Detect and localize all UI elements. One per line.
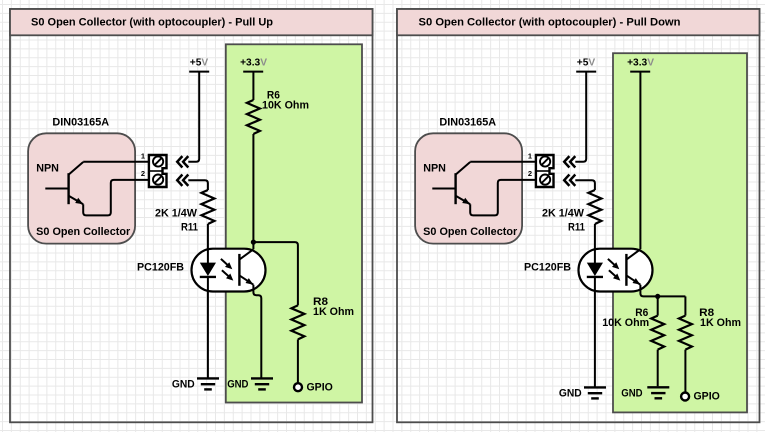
svg-text:+5V: +5V — [577, 58, 596, 69]
svg-text:GND: GND — [172, 378, 195, 390]
svg-text:2K 1/4W: 2K 1/4W — [155, 207, 198, 219]
svg-text:PC120FB: PC120FB — [524, 261, 571, 273]
node A junction — [251, 240, 256, 245]
svg-text:DIN03165A: DIN03165A — [52, 116, 109, 128]
svg-text:S0 Open Collector: S0 Open Collector — [423, 226, 518, 238]
terminal block J1 — [149, 155, 167, 187]
photo arrow 1 — [608, 259, 617, 267]
svg-text:DIN03165A: DIN03165A — [439, 116, 496, 128]
transistor Q2 collector — [456, 162, 471, 175]
wire +5V to row 1 — [575, 72, 586, 162]
svg-text:2K 1/4W: 2K 1/4W — [542, 207, 585, 219]
GPIO terminal — [681, 393, 689, 401]
wire R6 to GND2 — [657, 350, 659, 387]
wire +5V to row 1 — [188, 72, 199, 162]
LED D2 cathode bar — [587, 276, 603, 278]
transistor Q2 base wire — [432, 188, 455, 190]
wire +3.3V to collector — [639, 72, 641, 250]
ground GND2 — [647, 386, 669, 388]
optocoupler U2 body — [579, 249, 653, 292]
photo arrow 2 — [222, 270, 231, 278]
wire +3.3V to R6 — [252, 72, 254, 100]
svg-text:GND: GND — [559, 387, 582, 399]
transistor Q1 base bar — [67, 173, 69, 204]
panel frame P2 — [397, 9, 760, 422]
svg-text:1: 1 — [141, 152, 145, 161]
wire R8 to GPIO — [684, 350, 686, 393]
svg-text:+3.3V: +3.3V — [627, 58, 654, 69]
wire emitter to GND2 — [253, 285, 261, 378]
wire R11 to opto LED — [207, 224, 209, 262]
LED D2 triangle — [587, 263, 603, 276]
resistor R11 — [201, 190, 214, 224]
wire node A to R6 — [657, 296, 659, 315]
LED D1 anode wire — [207, 248, 209, 264]
phototransistor collector — [626, 249, 640, 259]
svg-text:1K Ohm: 1K Ohm — [700, 317, 741, 329]
svg-text:GND: GND — [227, 378, 248, 390]
plug arrows row 2 — [177, 175, 188, 186]
LED D2 cathode wire — [594, 277, 596, 386]
svg-text:+5V: +5V — [190, 58, 209, 69]
LED D1 triangle — [200, 263, 216, 276]
svg-text:2: 2 — [141, 169, 145, 178]
wire R8 to GPIO — [297, 339, 299, 383]
phototransistor emitter — [626, 275, 640, 284]
phototransistor emitter — [239, 275, 253, 284]
wire collector to terminal pin 1 — [83, 161, 149, 163]
GPIO domain box — [613, 53, 747, 412]
phototransistor base bar — [625, 254, 627, 286]
wire R11 to opto LED — [594, 224, 596, 262]
ground GND1 — [197, 377, 219, 379]
svg-text:GND: GND — [621, 387, 642, 399]
svg-text:10K Ohm: 10K Ohm — [602, 317, 649, 329]
wire collector to terminal pin 1 — [470, 161, 536, 163]
LED D1 cathode wire — [207, 277, 209, 377]
wire emitter to terminal pin 2 — [83, 180, 149, 216]
GPIO domain box — [226, 44, 362, 402]
transistor Q2 base bar — [454, 173, 456, 204]
resistor R8 — [291, 305, 304, 339]
panel frame P1 — [10, 9, 373, 422]
transistor Q1 collector — [69, 162, 84, 175]
terminal block J2 — [536, 155, 554, 187]
svg-text:10K Ohm: 10K Ohm — [262, 99, 309, 111]
wire R6 to node A — [252, 134, 254, 249]
resistor R11 — [588, 190, 601, 224]
resistor R6 — [247, 100, 260, 134]
svg-text:2: 2 — [528, 169, 532, 178]
LED D1 cathode bar — [200, 276, 216, 278]
wire emitter to node A — [640, 285, 685, 297]
phototransistor base bar — [238, 254, 240, 286]
svg-text:S0 Open Collector: S0 Open Collector — [36, 226, 131, 238]
wire row 2 to R11 — [188, 180, 208, 190]
wire row 2 to R11 — [575, 180, 595, 190]
svg-text:NPN: NPN — [423, 163, 446, 175]
LED D2 anode wire — [594, 248, 596, 264]
svg-text:1: 1 — [528, 152, 532, 161]
svg-text:GPIO: GPIO — [307, 381, 333, 393]
phototransistor collector — [239, 249, 253, 259]
photo arrow 2 — [609, 270, 618, 278]
photo arrow 1 — [221, 259, 230, 267]
module box S0 Open Collector — [415, 133, 522, 243]
module box S0 Open Collector — [28, 133, 135, 243]
resistor R6 — [651, 316, 664, 350]
transistor Q1 emitter — [69, 196, 84, 205]
node A junction — [655, 294, 660, 299]
plug arrows row 2 — [564, 175, 575, 186]
title bar — [10, 9, 373, 35]
title bar — [397, 9, 760, 35]
resistor R8 — [679, 316, 692, 350]
transistor Q2 emitter — [456, 196, 471, 205]
plug arrows row 1 — [564, 156, 575, 167]
GPIO terminal — [294, 383, 302, 391]
svg-text:R11: R11 — [568, 222, 585, 234]
ground GND1 — [584, 386, 606, 388]
svg-text:S0 Open Collector (with optoco: S0 Open Collector (with optocoupler) - P… — [31, 17, 273, 29]
wire emitter to terminal pin 2 — [470, 180, 536, 216]
wire node A to R8 — [684, 296, 686, 315]
transistor Q1 base wire — [45, 188, 68, 190]
svg-text:+3.3V: +3.3V — [240, 58, 267, 69]
wire node A to R8 — [253, 242, 298, 305]
ground GND2 — [251, 377, 273, 379]
svg-text:1K Ohm: 1K Ohm — [313, 306, 354, 318]
optocoupler U1 body — [192, 249, 266, 292]
svg-text:R11: R11 — [181, 222, 198, 234]
svg-text:S0 Open Collector (with optoco: S0 Open Collector (with optocoupler) - P… — [419, 17, 681, 29]
svg-text:PC120FB: PC120FB — [137, 261, 184, 273]
svg-text:GPIO: GPIO — [694, 391, 720, 403]
svg-text:NPN: NPN — [36, 163, 59, 175]
plug arrows row 1 — [177, 156, 188, 167]
